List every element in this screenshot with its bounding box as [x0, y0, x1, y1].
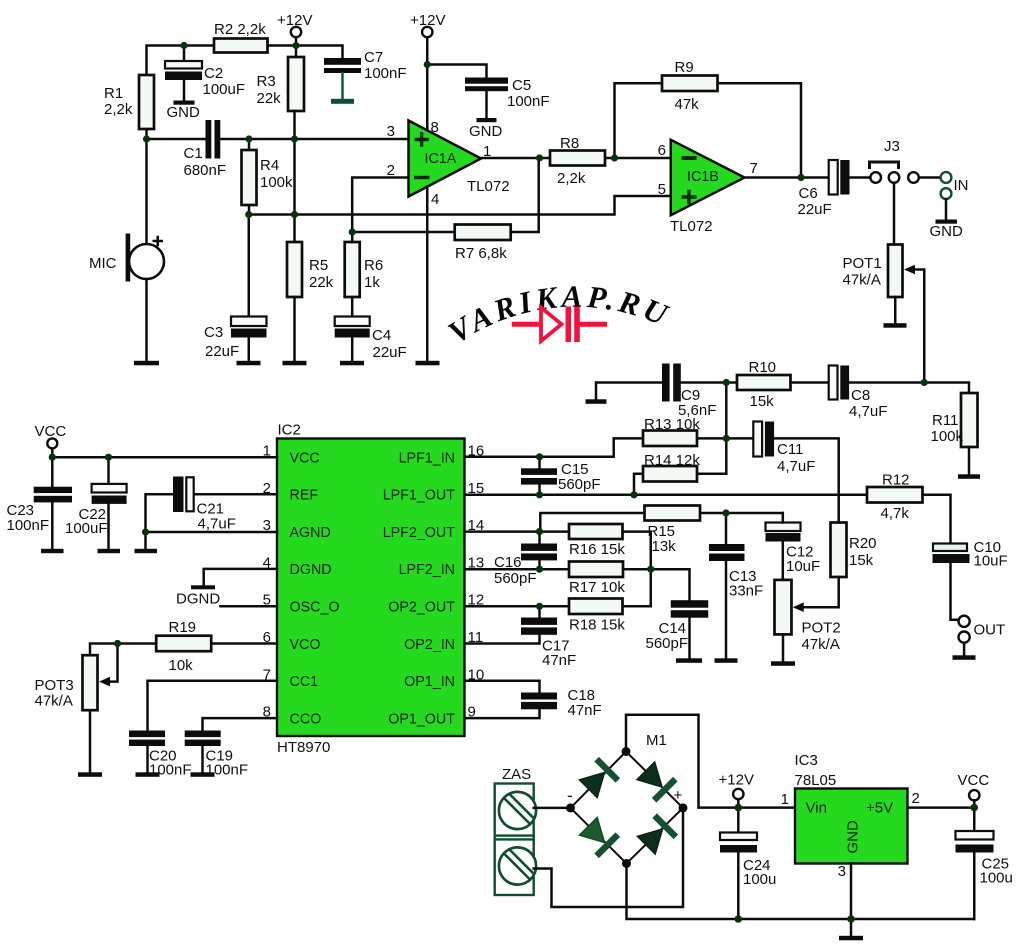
svg-text:47k/A: 47k/A [802, 636, 840, 653]
svg-text:15k: 15k [750, 393, 775, 410]
svg-text:78L05: 78L05 [795, 772, 837, 789]
svg-text:C4: C4 [372, 327, 391, 344]
svg-text:13k: 13k [652, 538, 677, 555]
svg-text:C6: C6 [799, 185, 818, 202]
svg-text:+5V: +5V [866, 800, 893, 817]
svg-text:5: 5 [658, 181, 666, 198]
svg-text:15: 15 [468, 480, 485, 497]
svg-text:TL072: TL072 [670, 218, 713, 235]
svg-text:47nF: 47nF [542, 652, 576, 669]
svg-text:47k: 47k [675, 96, 700, 113]
svg-text:100u: 100u [980, 870, 1013, 887]
svg-text:J3: J3 [884, 138, 900, 155]
svg-text:IC1A: IC1A [425, 151, 457, 167]
svg-text:C16: C16 [494, 554, 522, 571]
svg-text:100nF: 100nF [7, 517, 50, 534]
svg-text:GND: GND [845, 820, 862, 854]
svg-text:GND: GND [930, 223, 964, 240]
svg-text:OP1_OUT: OP1_OUT [388, 711, 455, 727]
svg-text:22uF: 22uF [373, 344, 407, 361]
svg-text:CC1: CC1 [290, 674, 319, 690]
svg-text:100uF: 100uF [203, 81, 246, 98]
svg-text:47nF: 47nF [568, 702, 602, 719]
svg-text:3: 3 [838, 863, 846, 880]
svg-text:100nF: 100nF [364, 65, 407, 82]
svg-text:100nF: 100nF [206, 762, 249, 779]
svg-text:15k: 15k [849, 552, 874, 569]
svg-text:R13 10k: R13 10k [644, 416, 700, 433]
svg-text:8: 8 [431, 119, 439, 136]
svg-text:R3: R3 [257, 73, 276, 90]
svg-text:100k: 100k [260, 174, 293, 191]
svg-text:C8: C8 [851, 387, 870, 404]
svg-text:560pF: 560pF [558, 476, 601, 493]
svg-text:100u: 100u [743, 871, 776, 888]
svg-text:22k: 22k [309, 274, 334, 291]
svg-text:2,2k: 2,2k [104, 101, 133, 118]
svg-text:GND: GND [167, 104, 201, 121]
svg-text:10uF: 10uF [974, 553, 1008, 570]
svg-text:LPF2_OUT: LPF2_OUT [383, 525, 456, 541]
svg-text:C11: C11 [777, 441, 803, 458]
svg-text:LPF1_OUT: LPF1_OUT [383, 488, 456, 504]
svg-text:100uF: 100uF [65, 520, 108, 537]
svg-text:12: 12 [468, 592, 485, 609]
svg-text:R10: R10 [749, 359, 777, 376]
svg-text:R4: R4 [260, 157, 279, 174]
svg-text:C5: C5 [512, 77, 531, 94]
svg-text:14: 14 [468, 517, 485, 534]
svg-text:22uF: 22uF [798, 201, 832, 218]
svg-text:11: 11 [468, 629, 484, 646]
svg-text:DGND: DGND [176, 591, 220, 608]
svg-text:Vin: Vin [806, 800, 827, 817]
svg-text:3: 3 [387, 123, 395, 140]
svg-text:R20: R20 [849, 535, 877, 552]
svg-text:HT8970: HT8970 [277, 739, 330, 756]
svg-text:4,7uF: 4,7uF [198, 516, 236, 533]
svg-text:R14 12k: R14 12k [644, 452, 700, 469]
svg-text:+12V: +12V [277, 12, 312, 29]
svg-text:R19: R19 [169, 619, 197, 636]
svg-text:R16 15k: R16 15k [569, 541, 625, 558]
svg-text:R7 6,8k: R7 6,8k [455, 245, 507, 262]
svg-text:100nF: 100nF [507, 93, 550, 110]
svg-text:+12V: +12V [410, 12, 445, 29]
svg-text:33nF: 33nF [729, 583, 763, 600]
svg-text:IC2: IC2 [278, 422, 301, 439]
svg-text:1k: 1k [364, 274, 380, 291]
svg-text:10: 10 [468, 666, 485, 683]
svg-text:IN: IN [954, 177, 969, 194]
svg-text:R6: R6 [364, 257, 383, 274]
svg-text:POT2: POT2 [802, 620, 841, 637]
svg-text:OSC_O: OSC_O [290, 600, 340, 616]
svg-text:VCC: VCC [290, 450, 320, 466]
svg-text:2: 2 [912, 790, 920, 807]
svg-text:R18 15k: R18 15k [569, 617, 625, 634]
svg-text:DGND: DGND [290, 562, 332, 578]
svg-text:22uF: 22uF [205, 343, 239, 360]
svg-text:R9: R9 [675, 59, 694, 76]
svg-text:4: 4 [431, 191, 439, 208]
svg-text:4,7uF: 4,7uF [849, 403, 887, 420]
svg-text:IC1B: IC1B [687, 169, 719, 185]
svg-text:7: 7 [750, 160, 758, 177]
svg-text:47k/A: 47k/A [35, 693, 73, 710]
svg-text:AGND: AGND [290, 525, 331, 541]
svg-text:6: 6 [658, 142, 666, 159]
svg-text:2: 2 [387, 162, 395, 179]
svg-text:R5: R5 [309, 257, 328, 274]
svg-text:OP2_OUT: OP2_OUT [388, 600, 455, 616]
svg-text:100nF: 100nF [149, 762, 192, 779]
svg-text:R8: R8 [560, 135, 579, 152]
svg-text:C2: C2 [204, 65, 223, 82]
svg-text:VCC: VCC [958, 772, 990, 789]
svg-text:9: 9 [468, 704, 476, 721]
svg-text:GND: GND [469, 123, 503, 140]
svg-text:560pF: 560pF [646, 635, 689, 652]
svg-text:10uF: 10uF [786, 558, 820, 575]
svg-text:13: 13 [468, 554, 485, 571]
svg-text:560pF: 560pF [494, 570, 537, 587]
svg-text:R1: R1 [104, 85, 123, 102]
svg-text:POT1: POT1 [843, 255, 882, 272]
svg-text:IC3: IC3 [795, 752, 818, 769]
svg-text:M1: M1 [646, 732, 667, 749]
svg-text:47k/A: 47k/A [843, 272, 881, 289]
svg-text:OUT: OUT [974, 622, 1006, 639]
svg-text:REF: REF [290, 488, 319, 504]
svg-text:22k: 22k [257, 90, 282, 107]
svg-text:LPF1_IN: LPF1_IN [399, 450, 455, 466]
svg-text:4,7uF: 4,7uF [777, 458, 815, 475]
svg-text:R11: R11 [932, 412, 958, 429]
svg-text:-: - [567, 786, 573, 805]
svg-text:LPF2_IN: LPF2_IN [399, 562, 455, 578]
svg-text:VCO: VCO [290, 637, 321, 653]
svg-text:R2 2,2k: R2 2,2k [214, 21, 266, 38]
svg-text:CCO: CCO [290, 711, 322, 727]
svg-text:2,2k: 2,2k [557, 170, 586, 187]
svg-text:TL072: TL072 [467, 178, 510, 195]
svg-text:+: + [674, 787, 683, 804]
svg-text:C1: C1 [184, 145, 203, 162]
svg-text:POT3: POT3 [35, 677, 74, 694]
svg-text:1: 1 [781, 791, 789, 808]
svg-text:MIC: MIC [89, 255, 117, 272]
svg-text:ZAS: ZAS [502, 766, 531, 783]
svg-text:C3: C3 [204, 324, 223, 341]
svg-text:100k: 100k [931, 428, 964, 445]
svg-text:OP2_IN: OP2_IN [404, 637, 455, 653]
svg-text:10k: 10k [169, 657, 194, 674]
svg-text:R12: R12 [882, 472, 910, 489]
svg-text:R17 10k: R17 10k [569, 579, 625, 596]
svg-text:C7: C7 [364, 49, 383, 66]
svg-text:4,7k: 4,7k [881, 505, 910, 522]
svg-text:680nF: 680nF [184, 162, 227, 179]
svg-text:+12V: +12V [719, 772, 754, 789]
svg-text:OP1_IN: OP1_IN [404, 674, 455, 690]
svg-text:VCC: VCC [35, 423, 67, 440]
svg-text:16: 16 [468, 443, 485, 460]
